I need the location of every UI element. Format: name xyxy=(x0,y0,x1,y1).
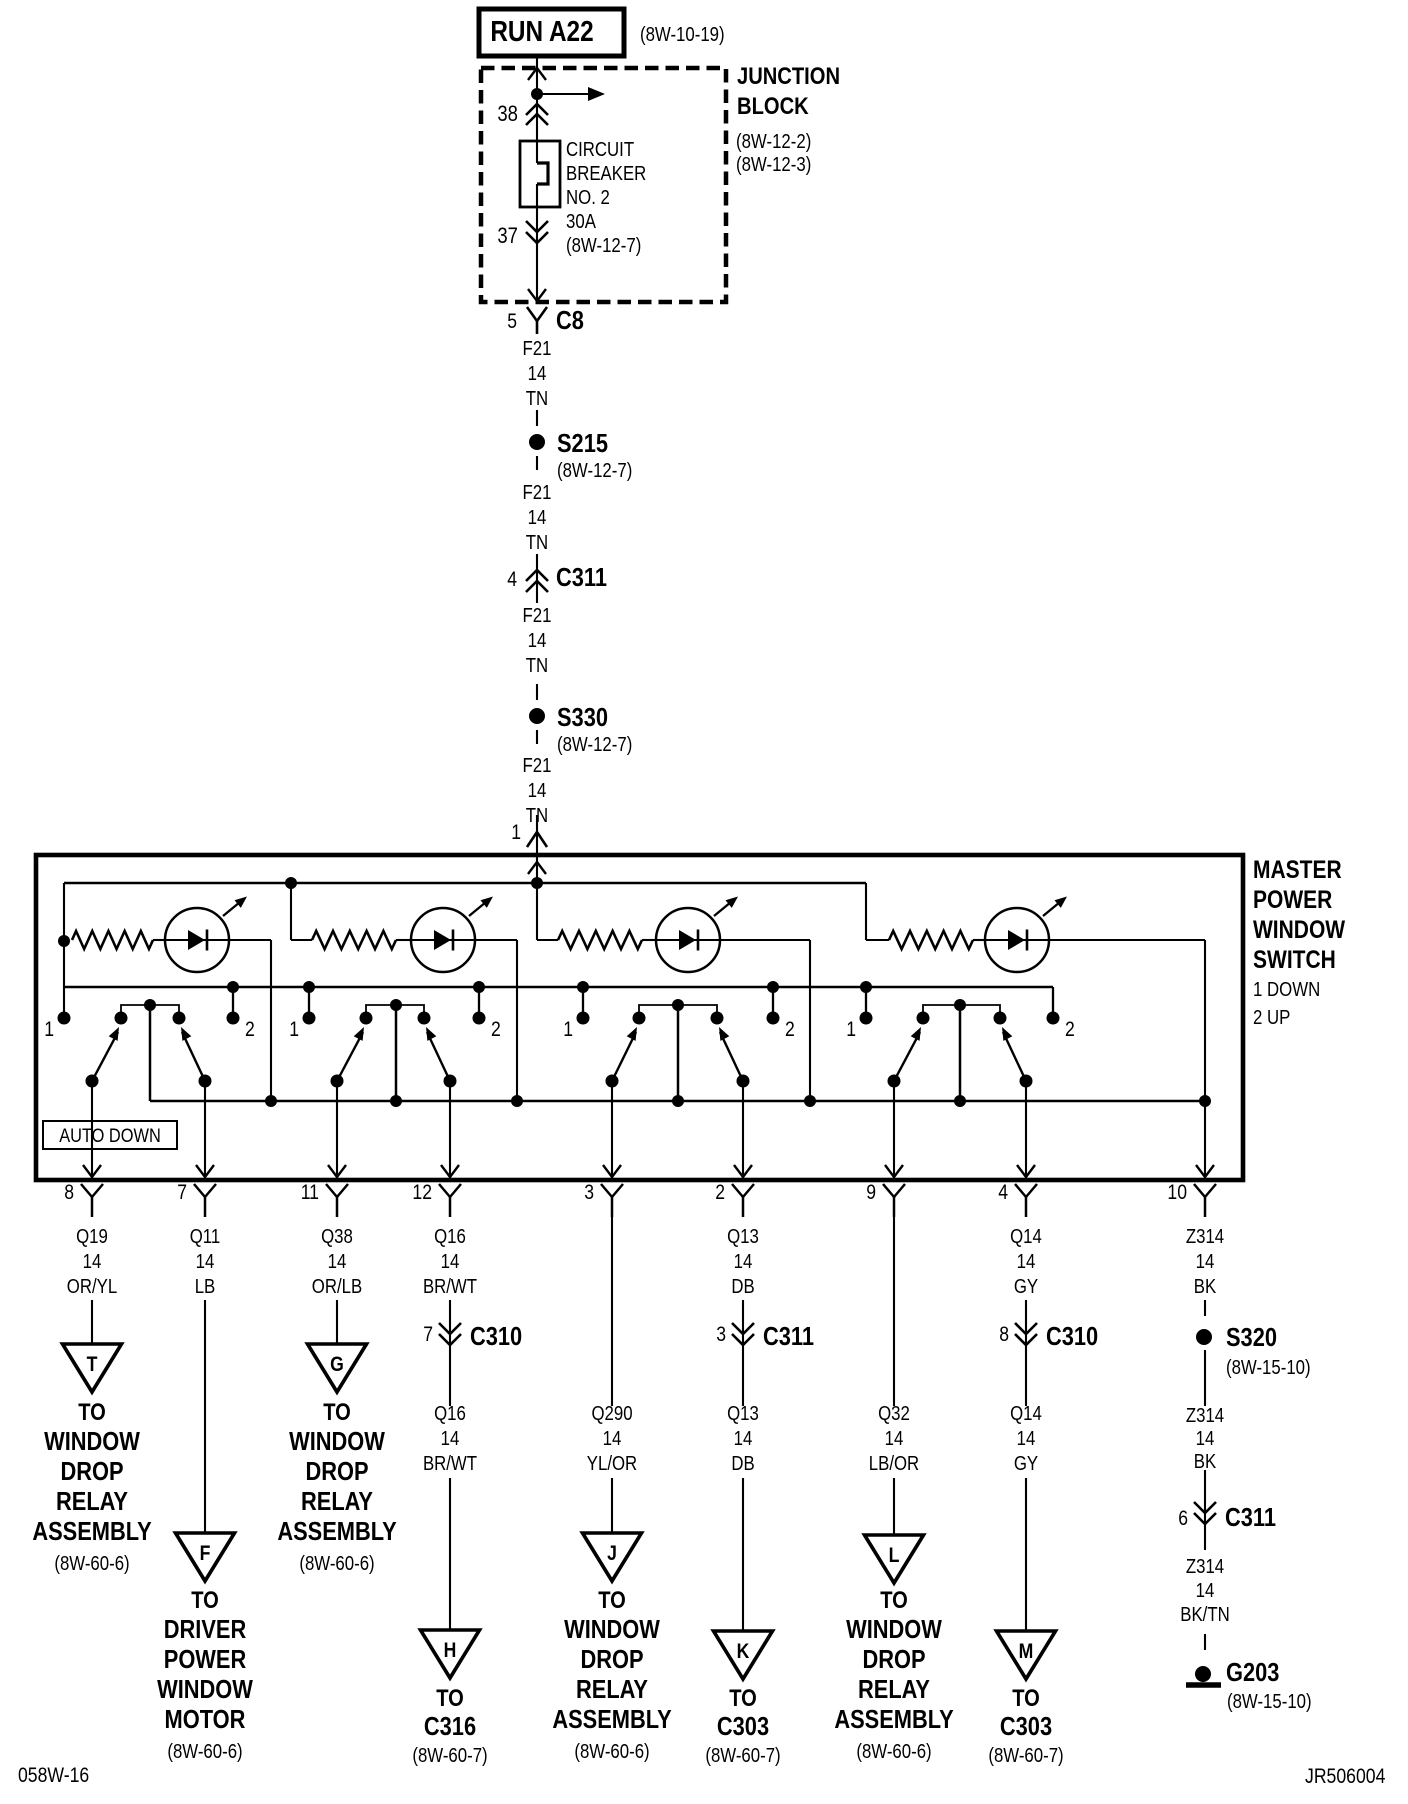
svg-text:TO: TO xyxy=(729,1685,757,1712)
svg-text:1: 1 xyxy=(511,821,521,844)
svg-text:3: 3 xyxy=(716,1323,726,1346)
svg-text:WINDOW: WINDOW xyxy=(157,1674,253,1704)
svg-text:ASSEMBLY: ASSEMBLY xyxy=(277,1516,396,1546)
svg-text:LB/OR: LB/OR xyxy=(869,1453,919,1475)
svg-text:14: 14 xyxy=(441,1428,460,1450)
svg-text:(8W-60-6): (8W-60-6) xyxy=(167,1741,242,1763)
svg-text:14: 14 xyxy=(196,1251,215,1273)
svg-text:TN: TN xyxy=(526,532,548,554)
svg-text:TO: TO xyxy=(598,1587,626,1614)
svg-text:RUN A22: RUN A22 xyxy=(490,16,593,48)
svg-text:(8W-60-7): (8W-60-7) xyxy=(412,1745,487,1767)
svg-text:GY: GY xyxy=(1014,1276,1038,1298)
svg-text:ASSEMBLY: ASSEMBLY xyxy=(32,1516,151,1546)
svg-text:DROP: DROP xyxy=(580,1644,643,1674)
svg-text:G: G xyxy=(330,1353,344,1376)
svg-text:14: 14 xyxy=(528,780,547,802)
svg-text:14: 14 xyxy=(1017,1428,1036,1450)
svg-text:14: 14 xyxy=(734,1428,753,1450)
svg-text:14: 14 xyxy=(1196,1251,1215,1273)
svg-text:1: 1 xyxy=(44,1018,54,1041)
svg-text:BK/TN: BK/TN xyxy=(1180,1604,1230,1626)
svg-text:7: 7 xyxy=(423,1323,433,1346)
svg-text:TN: TN xyxy=(526,388,548,410)
svg-text:POWER: POWER xyxy=(164,1644,247,1674)
svg-text:5: 5 xyxy=(507,310,517,333)
svg-text:14: 14 xyxy=(603,1428,622,1450)
svg-text:POWER: POWER xyxy=(1253,886,1332,914)
svg-text:C311: C311 xyxy=(763,1321,814,1351)
svg-text:9: 9 xyxy=(866,1181,876,1204)
svg-text:Z314: Z314 xyxy=(1186,1556,1224,1578)
svg-text:TN: TN xyxy=(526,655,548,677)
svg-text:(8W-60-6): (8W-60-6) xyxy=(299,1553,374,1575)
svg-text:(8W-10-19): (8W-10-19) xyxy=(640,24,725,46)
svg-text:37: 37 xyxy=(497,223,518,248)
svg-text:SWITCH: SWITCH xyxy=(1253,946,1336,974)
svg-text:14: 14 xyxy=(528,630,547,652)
svg-text:CIRCUIT: CIRCUIT xyxy=(566,139,634,161)
svg-text:2: 2 xyxy=(785,1018,795,1041)
svg-text:RELAY: RELAY xyxy=(576,1674,648,1704)
svg-text:14: 14 xyxy=(1017,1251,1036,1273)
svg-text:Q19: Q19 xyxy=(76,1226,108,1248)
svg-text:S320: S320 xyxy=(1226,1322,1277,1352)
svg-text:AUTO DOWN: AUTO DOWN xyxy=(59,1125,161,1147)
svg-text:T: T xyxy=(87,1353,98,1376)
svg-text:14: 14 xyxy=(83,1251,102,1273)
svg-text:ASSEMBLY: ASSEMBLY xyxy=(552,1704,671,1734)
svg-text:11: 11 xyxy=(301,1181,319,1204)
svg-text:058W-16: 058W-16 xyxy=(18,1764,89,1787)
svg-text:2: 2 xyxy=(491,1018,501,1041)
svg-text:38: 38 xyxy=(497,101,518,126)
svg-text:(8W-15-10): (8W-15-10) xyxy=(1226,1357,1311,1379)
svg-text:Q290: Q290 xyxy=(591,1403,632,1425)
svg-text:OR/YL: OR/YL xyxy=(67,1276,117,1298)
svg-text:F: F xyxy=(200,1542,211,1565)
svg-text:RELAY: RELAY xyxy=(56,1486,128,1516)
svg-text:(8W-60-6): (8W-60-6) xyxy=(54,1553,129,1575)
svg-text:14: 14 xyxy=(885,1428,904,1450)
svg-text:M: M xyxy=(1019,1640,1034,1663)
svg-text:14: 14 xyxy=(1196,1428,1215,1450)
svg-text:Q13: Q13 xyxy=(727,1403,759,1425)
svg-text:(8W-12-7): (8W-12-7) xyxy=(566,235,641,257)
svg-text:BREAKER: BREAKER xyxy=(566,163,646,185)
svg-text:14: 14 xyxy=(441,1251,460,1273)
svg-text:2: 2 xyxy=(1065,1018,1075,1041)
svg-text:TO: TO xyxy=(880,1587,908,1614)
svg-text:Q11: Q11 xyxy=(190,1226,221,1248)
svg-text:(8W-60-6): (8W-60-6) xyxy=(856,1741,931,1763)
svg-text:2 UP: 2 UP xyxy=(1253,1007,1290,1029)
svg-text:BK: BK xyxy=(1194,1276,1217,1298)
svg-text:7: 7 xyxy=(177,1181,187,1204)
svg-text:(8W-12-3): (8W-12-3) xyxy=(736,154,811,176)
svg-text:S330: S330 xyxy=(557,702,608,732)
svg-text:WINDOW: WINDOW xyxy=(289,1426,385,1456)
svg-text:TO: TO xyxy=(191,1587,219,1614)
svg-text:DB: DB xyxy=(731,1276,754,1298)
svg-text:C303: C303 xyxy=(717,1711,769,1741)
svg-text:TO: TO xyxy=(78,1399,106,1426)
svg-text:F21: F21 xyxy=(523,755,552,777)
svg-text:4: 4 xyxy=(507,568,517,591)
svg-text:Z314: Z314 xyxy=(1186,1405,1224,1427)
svg-text:10: 10 xyxy=(1167,1181,1187,1204)
svg-text:C311: C311 xyxy=(1225,1502,1276,1532)
svg-text:L: L xyxy=(889,1544,900,1567)
svg-text:RELAY: RELAY xyxy=(858,1674,930,1704)
svg-text:RELAY: RELAY xyxy=(301,1486,373,1516)
svg-text:TO: TO xyxy=(436,1685,464,1712)
svg-text:Q14: Q14 xyxy=(1010,1403,1042,1425)
svg-text:Z314: Z314 xyxy=(1186,1226,1224,1248)
svg-text:YL/OR: YL/OR xyxy=(587,1453,637,1475)
svg-text:Q16: Q16 xyxy=(434,1403,466,1425)
svg-text:ASSEMBLY: ASSEMBLY xyxy=(834,1704,953,1734)
svg-text:(8W-60-7): (8W-60-7) xyxy=(988,1745,1063,1767)
svg-text:3: 3 xyxy=(584,1181,594,1204)
svg-text:12: 12 xyxy=(412,1181,432,1204)
svg-text:4: 4 xyxy=(998,1181,1008,1204)
svg-text:14: 14 xyxy=(528,507,547,529)
svg-text:2: 2 xyxy=(715,1181,725,1204)
svg-text:S215: S215 xyxy=(557,428,608,458)
svg-text:C310: C310 xyxy=(1046,1321,1098,1351)
svg-text:14: 14 xyxy=(1196,1580,1215,1602)
svg-text:2: 2 xyxy=(245,1018,255,1041)
svg-text:8: 8 xyxy=(999,1323,1009,1346)
svg-text:C310: C310 xyxy=(470,1321,522,1351)
svg-text:TO: TO xyxy=(323,1399,351,1426)
svg-text:OR/LB: OR/LB xyxy=(312,1276,362,1298)
svg-text:LB: LB xyxy=(195,1276,216,1298)
svg-text:DROP: DROP xyxy=(305,1456,368,1486)
svg-text:DROP: DROP xyxy=(862,1644,925,1674)
svg-text:WINDOW: WINDOW xyxy=(564,1614,660,1644)
svg-text:DB: DB xyxy=(731,1453,754,1475)
svg-text:H: H xyxy=(444,1639,457,1662)
svg-text:C8: C8 xyxy=(556,305,584,335)
svg-text:G203: G203 xyxy=(1226,1657,1279,1687)
svg-text:14: 14 xyxy=(528,363,547,385)
svg-text:C316: C316 xyxy=(424,1711,476,1741)
svg-text:Q32: Q32 xyxy=(878,1403,910,1425)
svg-text:(8W-12-7): (8W-12-7) xyxy=(557,460,632,482)
svg-text:GY: GY xyxy=(1014,1453,1038,1475)
svg-text:8: 8 xyxy=(64,1181,74,1204)
svg-text:MASTER: MASTER xyxy=(1253,856,1342,884)
svg-text:Q16: Q16 xyxy=(434,1226,466,1248)
svg-text:1: 1 xyxy=(563,1018,573,1041)
svg-text:WINDOW: WINDOW xyxy=(846,1614,942,1644)
svg-text:JUNCTION: JUNCTION xyxy=(737,63,840,90)
svg-text:BLOCK: BLOCK xyxy=(737,93,809,120)
svg-text:WINDOW: WINDOW xyxy=(44,1426,140,1456)
svg-text:C311: C311 xyxy=(556,562,607,592)
svg-text:JR506004: JR506004 xyxy=(1305,1765,1386,1788)
svg-text:NO. 2: NO. 2 xyxy=(566,187,610,209)
svg-text:Q14: Q14 xyxy=(1010,1226,1042,1248)
svg-text:14: 14 xyxy=(328,1251,347,1273)
svg-text:(8W-60-7): (8W-60-7) xyxy=(705,1745,780,1767)
svg-text:(8W-60-6): (8W-60-6) xyxy=(574,1741,649,1763)
svg-text:1 DOWN: 1 DOWN xyxy=(1253,979,1320,1001)
svg-text:BK: BK xyxy=(1194,1451,1217,1473)
svg-text:F21: F21 xyxy=(523,482,552,504)
svg-text:Q38: Q38 xyxy=(321,1226,353,1248)
svg-text:F21: F21 xyxy=(523,338,552,360)
svg-text:BR/WT: BR/WT xyxy=(423,1453,477,1475)
svg-text:C303: C303 xyxy=(1000,1711,1052,1741)
svg-text:DRIVER: DRIVER xyxy=(164,1614,247,1644)
svg-text:MOTOR: MOTOR xyxy=(165,1704,246,1734)
svg-text:Q13: Q13 xyxy=(727,1226,759,1248)
svg-text:J: J xyxy=(607,1542,617,1565)
svg-text:(8W-12-2): (8W-12-2) xyxy=(736,131,811,153)
svg-text:30A: 30A xyxy=(566,211,596,233)
svg-text:WINDOW: WINDOW xyxy=(1253,916,1345,944)
svg-text:(8W-15-10): (8W-15-10) xyxy=(1227,1691,1312,1713)
svg-text:TO: TO xyxy=(1012,1685,1040,1712)
svg-text:14: 14 xyxy=(734,1251,753,1273)
svg-text:(8W-12-7): (8W-12-7) xyxy=(557,734,632,756)
svg-text:1: 1 xyxy=(289,1018,299,1041)
svg-text:6: 6 xyxy=(1178,1507,1188,1530)
svg-text:F21: F21 xyxy=(523,605,552,627)
svg-text:BR/WT: BR/WT xyxy=(423,1276,477,1298)
svg-text:1: 1 xyxy=(846,1018,856,1041)
svg-text:K: K xyxy=(737,1640,750,1663)
svg-text:DROP: DROP xyxy=(60,1456,123,1486)
